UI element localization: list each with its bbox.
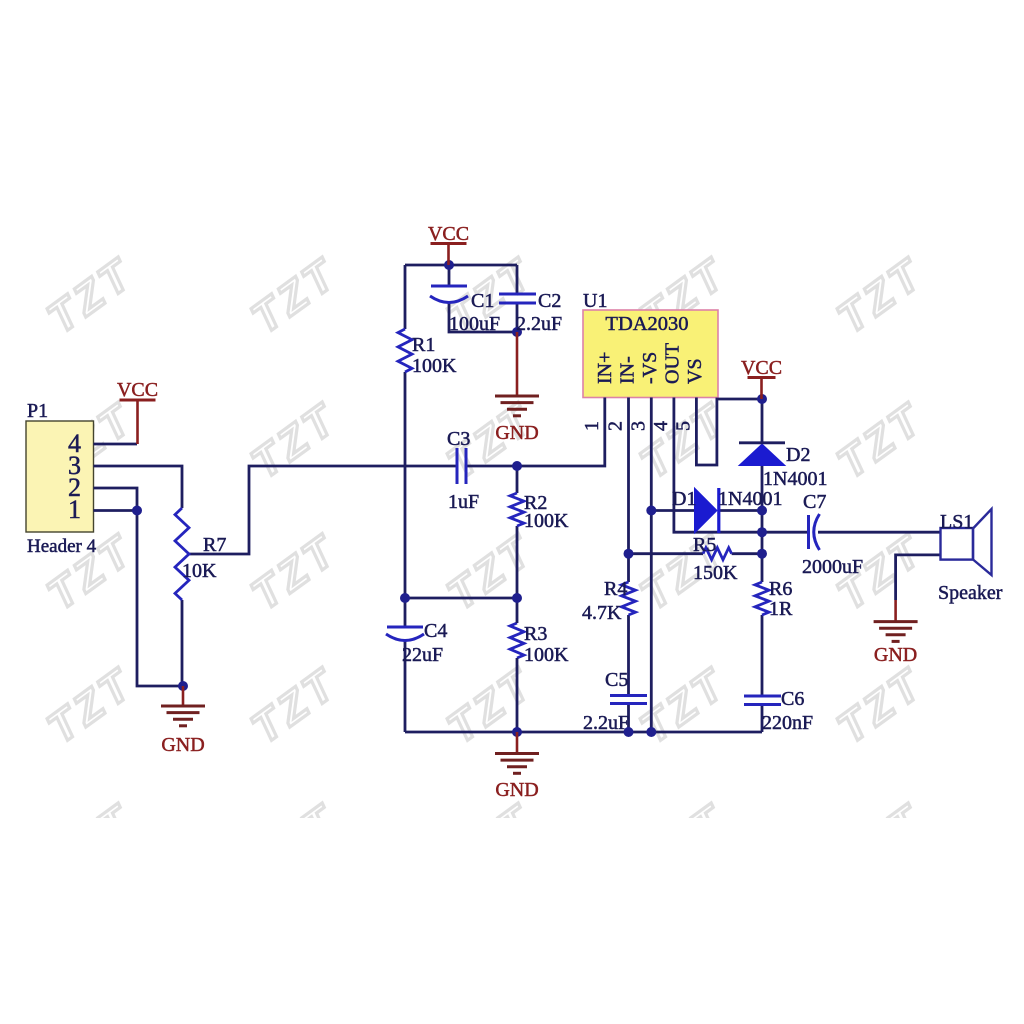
svg-text:U1: U1 bbox=[583, 290, 607, 312]
svg-text:10K: 10K bbox=[182, 560, 217, 582]
svg-text:C5: C5 bbox=[605, 669, 628, 691]
svg-text:C4: C4 bbox=[424, 620, 447, 642]
svg-text:5: 5 bbox=[672, 421, 694, 431]
svg-text:2000uF: 2000uF bbox=[802, 556, 863, 578]
svg-text:D2: D2 bbox=[786, 444, 810, 466]
svg-text:GND: GND bbox=[495, 422, 538, 444]
svg-text:C2: C2 bbox=[538, 290, 561, 312]
svg-text:GND: GND bbox=[161, 734, 204, 756]
svg-text:1: 1 bbox=[581, 421, 603, 431]
svg-text:22uF: 22uF bbox=[402, 644, 443, 666]
svg-text:R4: R4 bbox=[604, 578, 627, 600]
svg-text:100K: 100K bbox=[524, 510, 569, 532]
svg-text:1R: 1R bbox=[769, 598, 793, 620]
svg-text:TDA2030: TDA2030 bbox=[605, 313, 688, 335]
svg-text:4.7K: 4.7K bbox=[582, 602, 622, 624]
svg-text:R3: R3 bbox=[524, 623, 547, 645]
svg-text:C6: C6 bbox=[781, 688, 804, 710]
svg-text:IN-: IN- bbox=[617, 356, 639, 384]
svg-text:OUT: OUT bbox=[662, 343, 684, 384]
svg-text:GND: GND bbox=[495, 779, 538, 801]
svg-text:1N4001: 1N4001 bbox=[763, 468, 827, 490]
svg-text:100K: 100K bbox=[412, 355, 457, 377]
svg-text:R7: R7 bbox=[203, 534, 226, 556]
svg-text:150K: 150K bbox=[693, 562, 738, 584]
svg-text:C1: C1 bbox=[471, 290, 494, 312]
svg-text:220nF: 220nF bbox=[762, 712, 813, 734]
svg-text:Header 4: Header 4 bbox=[27, 536, 97, 557]
svg-text:100K: 100K bbox=[524, 644, 569, 666]
svg-text:1: 1 bbox=[68, 495, 81, 524]
svg-text:C7: C7 bbox=[803, 491, 826, 513]
svg-text:1N4001: 1N4001 bbox=[718, 488, 782, 510]
svg-text:IN+: IN+ bbox=[594, 352, 616, 384]
svg-text:1uF: 1uF bbox=[448, 491, 479, 513]
svg-text:VS: VS bbox=[684, 358, 706, 384]
svg-text:LS1: LS1 bbox=[940, 511, 973, 533]
svg-text:2.2uF: 2.2uF bbox=[583, 712, 629, 734]
svg-text:4: 4 bbox=[650, 421, 672, 431]
svg-text:VCC: VCC bbox=[117, 379, 158, 401]
svg-text:R5: R5 bbox=[693, 534, 716, 556]
svg-text:C3: C3 bbox=[447, 428, 470, 450]
svg-text:R1: R1 bbox=[412, 334, 435, 356]
svg-text:Speaker: Speaker bbox=[938, 582, 1003, 604]
svg-text:-VS: -VS bbox=[639, 352, 661, 384]
svg-text:D1: D1 bbox=[672, 488, 696, 510]
svg-text:100uF: 100uF bbox=[449, 313, 500, 335]
svg-text:R6: R6 bbox=[769, 578, 792, 600]
svg-text:VCC: VCC bbox=[741, 357, 782, 379]
svg-text:P1: P1 bbox=[27, 400, 48, 422]
svg-text:2: 2 bbox=[605, 421, 627, 431]
svg-text:VCC: VCC bbox=[428, 223, 469, 245]
svg-text:2.2uF: 2.2uF bbox=[516, 313, 562, 335]
svg-text:GND: GND bbox=[874, 644, 917, 666]
svg-text:3: 3 bbox=[627, 421, 649, 431]
